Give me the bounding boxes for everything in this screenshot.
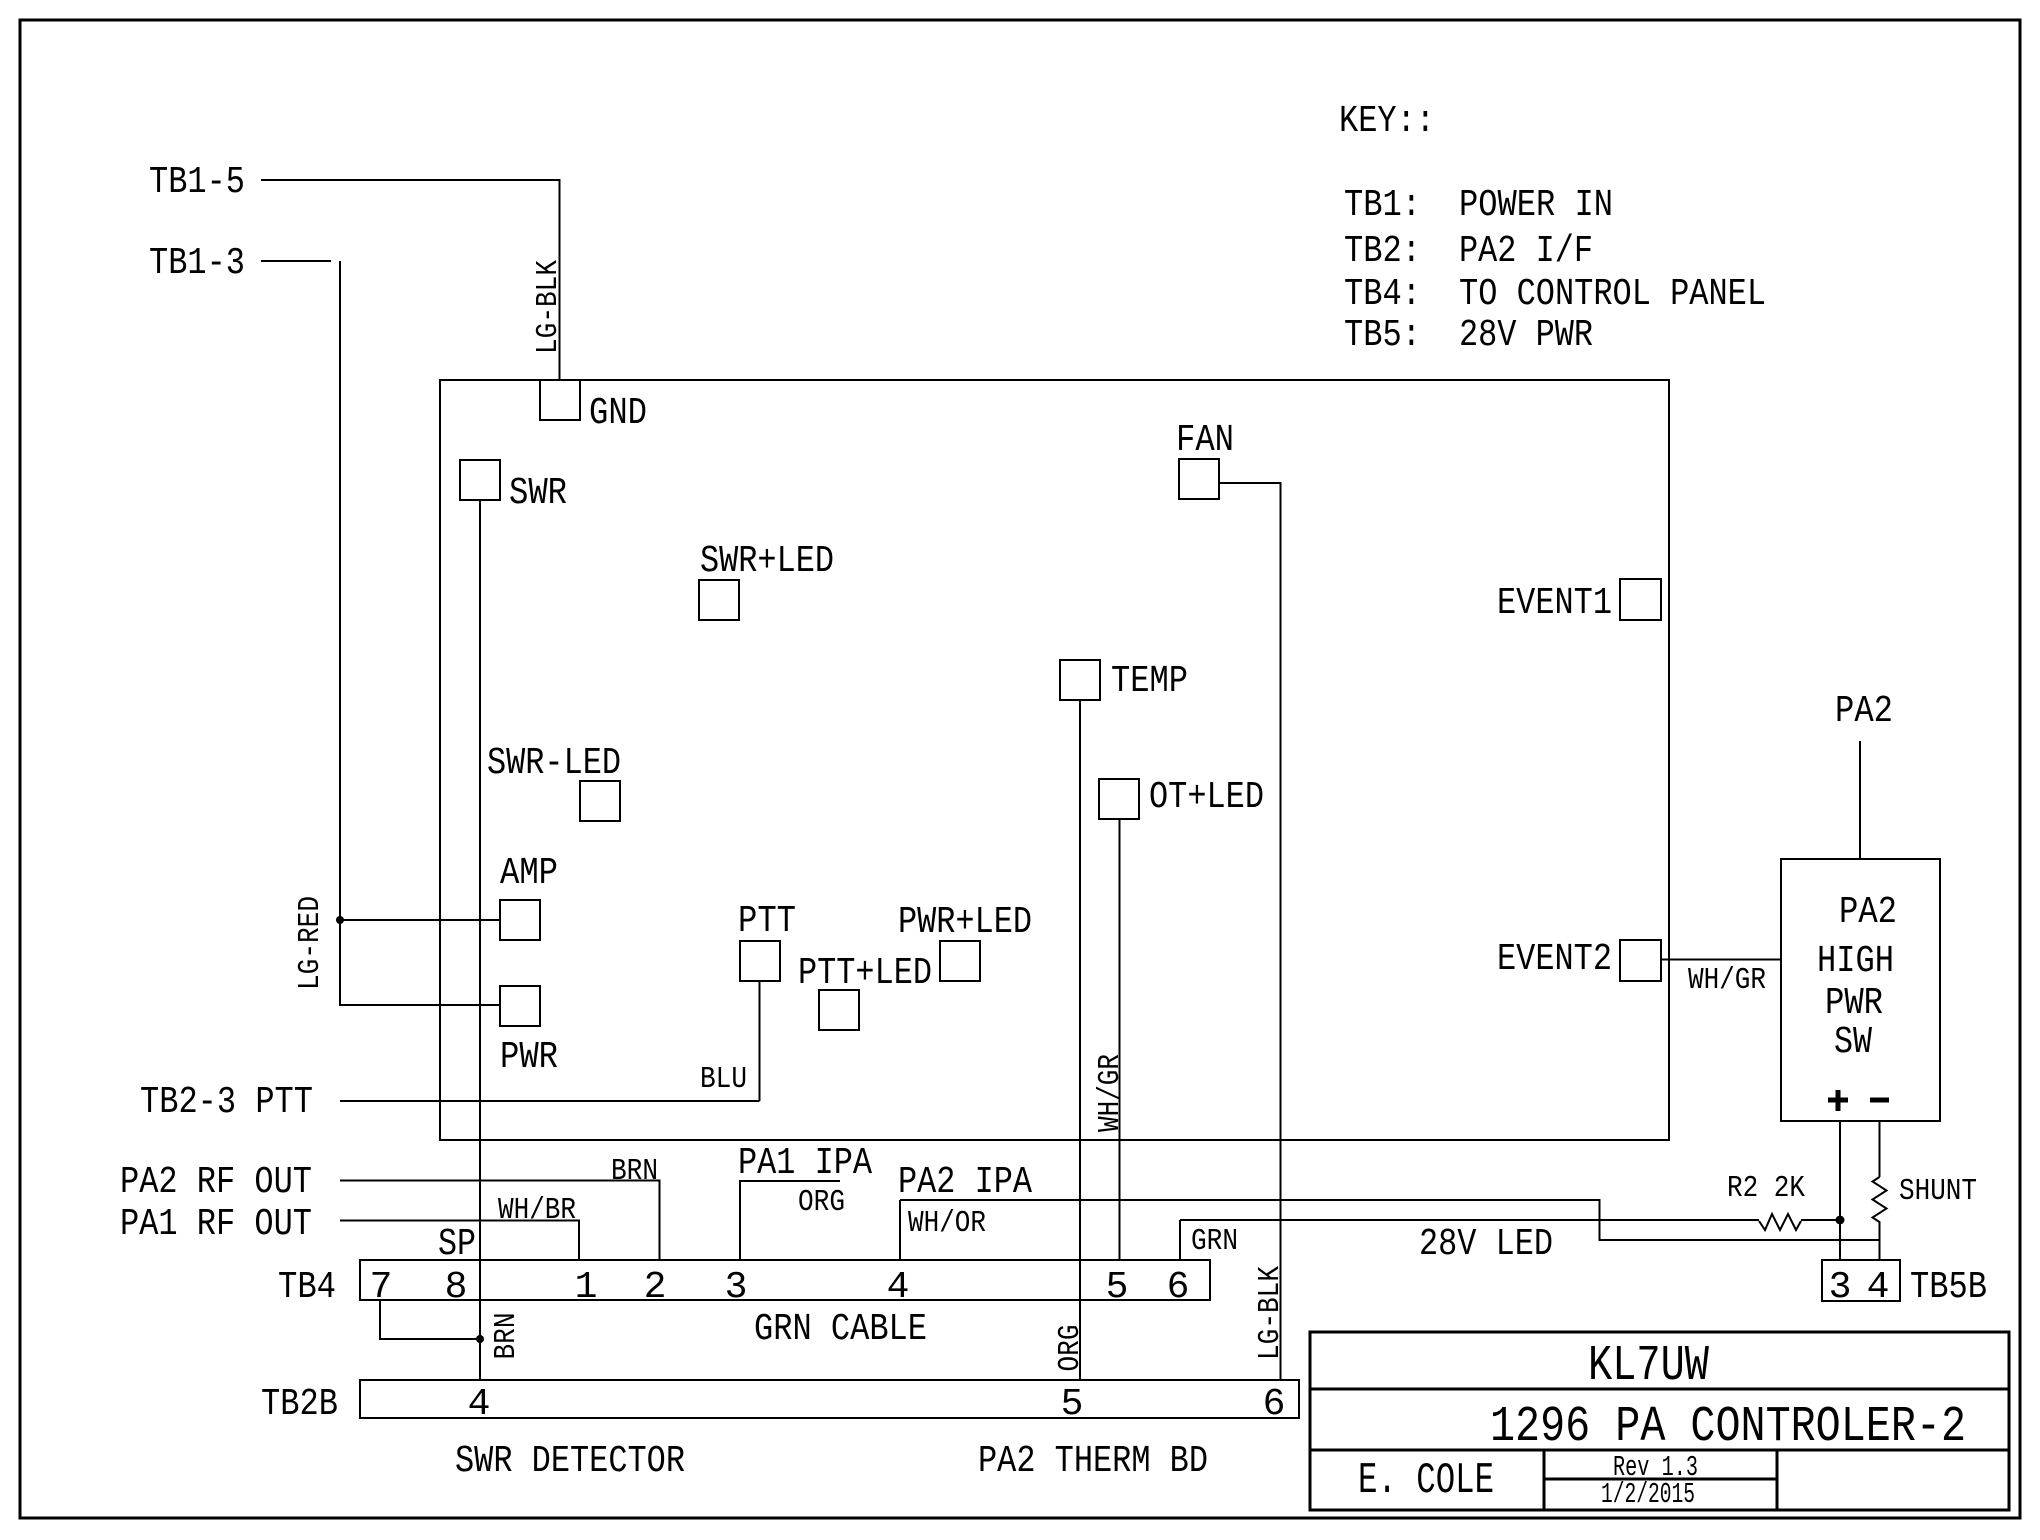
svg-text:PTT+LED: PTT+LED (798, 952, 932, 995)
svg-text:1: 1 (575, 1266, 598, 1309)
pad OT+LED (1099, 779, 1139, 819)
svg-text:4: 4 (468, 1383, 491, 1426)
pad FAN (1179, 459, 1219, 499)
svg-text:FAN: FAN (1176, 419, 1234, 462)
svg-text:SWR-LED: SWR-LED (487, 742, 621, 785)
svg-text:1296 PA CONTROLER-2: 1296 PA CONTROLER-2 (1490, 1399, 1966, 1456)
svg-text:GRN CABLE: GRN CABLE (754, 1308, 927, 1351)
pad AMP (500, 900, 540, 940)
svg-text:TB5B: TB5B (1910, 1266, 1987, 1309)
resistor SHUNT (1873, 1177, 1887, 1227)
svg-text:WH/GR: WH/GR (1093, 1054, 1128, 1132)
svg-text:E. COLE: E. COLE (1358, 1456, 1494, 1506)
controller main box (440, 380, 1669, 1140)
svg-text:TEMP: TEMP (1111, 660, 1188, 703)
wire 28V LED run (900, 1200, 1880, 1240)
svg-text:5: 5 (1106, 1266, 1129, 1309)
wire shunt to TB5B-4 (1879, 1227, 1881, 1260)
svg-text:PA2 THERM BD: PA2 THERM BD (978, 1440, 1208, 1483)
svg-text:1/2/2015: 1/2/2015 (1601, 1478, 1695, 1511)
minus terminal (1870, 1098, 1889, 1103)
svg-text:HIGH: HIGH (1817, 940, 1894, 983)
terminal strip TB5B (1822, 1260, 1900, 1301)
wire to PWR pad (340, 920, 500, 1005)
svg-text:PWR: PWR (500, 1036, 558, 1079)
svg-text:PA1 RF OUT: PA1 RF OUT (120, 1203, 312, 1246)
svg-text:WH/OR: WH/OR (908, 1206, 986, 1241)
svg-text:AMP: AMP (500, 852, 558, 895)
junction at LG-RED split (336, 916, 344, 924)
wire SWR to TB2B-4 (479, 500, 481, 1380)
svg-text:ORG: ORG (798, 1185, 845, 1220)
svg-text:28V LED: 28V LED (1419, 1223, 1553, 1266)
svg-text:TB5:: TB5: (1344, 314, 1421, 357)
title row divider 1 (1310, 1388, 2009, 1391)
svg-text:PA2: PA2 (1835, 690, 1893, 733)
wire TB4-3 bracket (740, 1181, 840, 1260)
pad EVENT1 (1620, 579, 1661, 620)
pad PTT (740, 941, 780, 981)
svg-text:5: 5 (1061, 1383, 1084, 1426)
svg-text:POWER IN: POWER IN (1459, 184, 1613, 227)
svg-text:PTT: PTT (738, 900, 796, 943)
svg-text:SWR DETECTOR: SWR DETECTOR (455, 1440, 685, 1483)
svg-text:BRN: BRN (611, 1154, 658, 1189)
wire TB4-6 GRN riser (1179, 1220, 1181, 1260)
resistor R2 (1759, 1214, 1801, 1230)
pad EVENT2 (1620, 940, 1661, 981)
svg-text:TB4:: TB4: (1344, 273, 1421, 316)
wire GRN 28V to junction (1180, 1219, 1759, 1221)
svg-text:TB2B: TB2B (261, 1383, 338, 1426)
wire FAN to TB2B-6 (1219, 483, 1281, 1380)
wire TB4-4 riser (899, 1200, 901, 1260)
pad GND (540, 380, 580, 420)
svg-text:PA2 IPA: PA2 IPA (898, 1161, 1032, 1204)
svg-text:SHUNT: SHUNT (1899, 1174, 1977, 1209)
svg-text:SWR+LED: SWR+LED (700, 540, 834, 583)
svg-text:EVENT2: EVENT2 (1497, 938, 1612, 981)
svg-text:2: 2 (644, 1266, 667, 1309)
wire TB1-3 stub (261, 260, 331, 262)
svg-text:WH/GR: WH/GR (1688, 963, 1766, 998)
wire TB4-7 to junction (380, 1300, 480, 1339)
pad PWR (500, 986, 540, 1026)
svg-text:TB2-3 PTT: TB2-3 PTT (140, 1081, 313, 1124)
svg-text:BRN: BRN (489, 1313, 524, 1360)
pad SWR+LED (699, 580, 739, 620)
wire plus to TB5B-3 (1839, 1121, 1841, 1260)
svg-text:4: 4 (1867, 1266, 1890, 1309)
pad TEMP (1060, 660, 1100, 700)
svg-text:LG-BLK: LG-BLK (531, 260, 566, 354)
terminal strip TB4 (360, 1260, 1210, 1300)
wire R2 to junction (1801, 1219, 1836, 1221)
svg-text:OT+LED: OT+LED (1149, 776, 1264, 819)
svg-text:PWR+LED: PWR+LED (898, 901, 1032, 944)
svg-text:PA1 IPA: PA1 IPA (738, 1142, 872, 1185)
pad SWR-LED (580, 781, 620, 821)
svg-text:SW: SW (1834, 1021, 1872, 1064)
svg-text:6: 6 (1263, 1383, 1286, 1426)
title cell divider left (1543, 1450, 1546, 1510)
svg-text:KL7UW: KL7UW (1588, 1338, 1709, 1395)
svg-text:PA2 RF OUT: PA2 RF OUT (120, 1161, 312, 1204)
svg-text:R2 2K: R2 2K (1727, 1171, 1805, 1206)
svg-text:KEY::: KEY:: (1339, 100, 1435, 143)
svg-text:3: 3 (1829, 1266, 1852, 1309)
wire PTT down (759, 981, 761, 1101)
svg-text:GRN: GRN (1191, 1224, 1238, 1259)
pad SWR (460, 460, 500, 500)
svg-text:TB4: TB4 (278, 1266, 336, 1309)
wire to AMP pad (340, 919, 500, 921)
wire minus to shunt (1879, 1121, 1881, 1177)
wire TEMP to TB2B-5 (1079, 700, 1081, 1380)
svg-text:4: 4 (887, 1266, 910, 1309)
wire TB2-3 PTT (340, 1100, 760, 1102)
pad PTT+LED (819, 990, 859, 1030)
terminal strip TB2B (360, 1380, 1299, 1418)
wire PA2 RF OUT to TB4-2 (340, 1181, 660, 1261)
plus terminal (1828, 1090, 1848, 1111)
wire EVENT2 to switch (1661, 959, 1781, 961)
svg-text:TB2:: TB2: (1344, 230, 1421, 273)
wire PA1 RF OUT to TB4-1 (340, 1221, 579, 1261)
junction dot at R2 (1836, 1216, 1845, 1225)
title rev divider (1544, 1478, 1777, 1481)
title cell divider right (1776, 1450, 1779, 1510)
wire TB1-3 vertical (339, 261, 341, 920)
svg-text:BLU: BLU (700, 1062, 747, 1097)
PA2 high power switch box (1781, 859, 1940, 1121)
wire OT+LED to TB4-5 (1119, 819, 1121, 1260)
svg-text:LG-RED: LG-RED (293, 896, 328, 990)
svg-text:28V PWR: 28V PWR (1459, 314, 1593, 357)
pad PWR+LED (940, 941, 980, 981)
svg-text:PA2: PA2 (1839, 891, 1897, 934)
svg-text:ORG: ORG (1053, 1325, 1088, 1372)
svg-text:TO CONTROL PANEL: TO CONTROL PANEL (1459, 273, 1766, 316)
title block frame (1310, 1332, 2009, 1510)
wire PA2 to switch (1859, 741, 1861, 859)
wire TB1-5 to GND (261, 180, 560, 380)
junction dot BRN (476, 1335, 484, 1343)
svg-text:8: 8 (445, 1266, 468, 1309)
svg-text:TB1-5: TB1-5 (149, 161, 245, 204)
svg-text:TB1:: TB1: (1344, 184, 1421, 227)
svg-text:EVENT1: EVENT1 (1497, 582, 1612, 625)
svg-text:PA2 I/F: PA2 I/F (1459, 230, 1593, 273)
svg-text:3: 3 (725, 1266, 748, 1309)
svg-text:SWR: SWR (509, 472, 567, 515)
title row divider 2 (1310, 1449, 2009, 1452)
svg-text:GND: GND (589, 392, 647, 435)
svg-text:WH/BR: WH/BR (498, 1193, 576, 1228)
svg-text:LG-BLK: LG-BLK (1253, 1266, 1288, 1360)
svg-text:TB1-3: TB1-3 (149, 242, 245, 285)
svg-text:PWR: PWR (1825, 982, 1883, 1025)
svg-text:6: 6 (1167, 1266, 1190, 1309)
